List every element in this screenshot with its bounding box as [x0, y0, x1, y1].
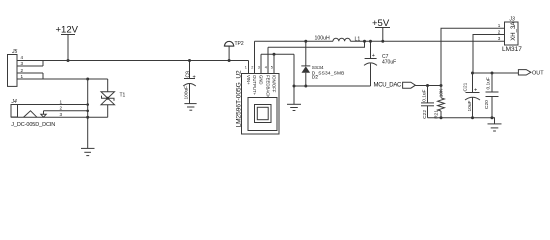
wire vertical x294 GND down: [293, 54, 295, 104]
svg-text:J5: J5: [11, 49, 18, 55]
svg-text:VIN+: VIN+: [246, 75, 251, 85]
svg-text:C21: C21: [462, 82, 468, 91]
svg-text:OUTPUT+: OUTPUT+: [252, 75, 257, 96]
J4 tip contact tent: [24, 111, 38, 118]
node junction at (294,86): [293, 85, 296, 88]
svg-text:2: 2: [498, 29, 501, 34]
inductor L1: [333, 38, 350, 41]
svg-text:100uF: 100uF: [183, 86, 189, 100]
node +12V junction: [67, 59, 70, 62]
svg-text:1: 1: [60, 99, 63, 104]
node junction C20 bottom: [491, 116, 494, 119]
wire vertical x87.7 down to ground: [87, 79, 89, 148]
+5V power symbol: [372, 18, 390, 41]
svg-text:100uH: 100uH: [315, 35, 331, 41]
J5 pin 3 stub: [17, 65, 43, 67]
svg-text:+12V: +12V: [56, 25, 79, 36]
svg-text:LM2596T-005G_U2: LM2596T-005G_U2: [236, 70, 243, 128]
svg-text:C20: C20: [484, 100, 490, 109]
svg-text:XH_3A: XH_3A: [511, 22, 517, 41]
node junction C20 top: [491, 72, 494, 75]
svg-text:/ON/OFF: /ON/OFF: [271, 75, 276, 93]
svg-text:2: 2: [21, 68, 24, 73]
diode D2 SS34: [301, 41, 310, 86]
capacitor C22 0.1uF: [421, 86, 434, 118]
svg-text:OUT: OUT: [532, 71, 544, 77]
wire GND net y54.2 (U2 pins 3,5): [261, 53, 294, 55]
svg-text:3: 3: [258, 66, 260, 70]
J4 pin 2 wire: [44, 110, 88, 112]
node junction FB at (364.5,41.2): [363, 40, 366, 43]
svg-text:+: +: [474, 88, 477, 94]
wire +5V rail after L1 to J3 pin3: [350, 40, 504, 42]
J5 pin 1 stub: [17, 78, 43, 80]
svg-text:3: 3: [60, 112, 63, 117]
svg-text:2: 2: [251, 66, 253, 70]
svg-text:4: 4: [21, 55, 24, 60]
svg-text:3: 3: [498, 36, 501, 41]
J4 pin 3 wire (bottom): [11, 116, 108, 118]
wire J5 pins1-2 to T1 (y79): [43, 78, 108, 80]
svg-text:0.1uF: 0.1uF: [485, 77, 491, 89]
svg-text:T1: T1: [120, 92, 126, 98]
svg-text:GND: GND: [258, 75, 263, 85]
svg-text:TP2: TP2: [235, 41, 244, 47]
node junction C21 top: [471, 72, 474, 75]
ground symbol under diode area: [287, 104, 301, 110]
svg-text:FEEDBACK: FEEDBACK: [265, 75, 270, 98]
U2 pin 1 stub (VIN+): [248, 61, 250, 74]
wire +12V rail y60.5: [43, 60, 249, 62]
svg-text:3: 3: [21, 61, 24, 66]
U2 pin 2 stub (OUTPUT+): [254, 41, 256, 73]
capacitor C20 0.1uF: [486, 73, 499, 118]
U2 inner rect A: [248, 98, 277, 131]
svg-text:+: +: [193, 74, 196, 80]
node junction at (87.7,117.3): [86, 116, 89, 119]
wire GND y86 from x294 to C7 bottom: [294, 85, 371, 87]
svg-text:10uF: 10uF: [467, 100, 473, 111]
U2 pin 4 stub (FEEDBACK): [267, 47, 269, 73]
wire bottom GND rail y117.8: [428, 118, 495, 124]
wire joining J5 pins 4-3: [42, 61, 44, 67]
J4 pin 1 wire (top): [11, 104, 88, 106]
J3 pin 2 wire (OUT): [473, 35, 505, 74]
svg-text:2: 2: [60, 106, 63, 111]
svg-text:MCU_DAC: MCU_DAC: [374, 83, 403, 89]
node D2 bottom junction: [304, 85, 307, 88]
connector J5 body: [8, 55, 18, 87]
J3 pin 1 wire (ADJ): [441, 28, 505, 85]
module U2 body: [242, 74, 280, 135]
svg-text:4: 4: [265, 66, 267, 70]
+12V power symbol: [56, 25, 79, 61]
connector J4 barrel rect: [11, 105, 18, 118]
node junction at (87.7,104.5): [86, 103, 89, 106]
node +5V junction: [381, 40, 384, 43]
svg-text:J_DC-005D_DCIN: J_DC-005D_DCIN: [11, 122, 55, 128]
svg-text:J3: J3: [509, 17, 516, 23]
node junction divider tee: [440, 84, 443, 87]
svg-text:470uF: 470uF: [382, 60, 396, 66]
svg-text:1: 1: [498, 23, 501, 28]
svg-text:1: 1: [245, 66, 247, 70]
node C9 junction on rail: [188, 59, 191, 62]
capacitor C7: [364, 41, 377, 86]
capacitor C9: [183, 61, 196, 104]
node junction C21 bottom: [471, 116, 474, 119]
J5 pin 2 stub: [17, 72, 43, 74]
node junction pin5 on y54.2: [273, 53, 276, 56]
wire FEEDBACK y47.2 (U2 pin4 to output node): [268, 41, 365, 47]
capacitor C21 10uF: [465, 73, 480, 118]
svg-text:5: 5: [271, 66, 273, 70]
U2 inner rect B: [255, 105, 272, 123]
ground symbol left: [81, 148, 95, 155]
ground symbol right: [488, 124, 502, 131]
resistor R21 10K: [438, 86, 445, 118]
connector J3 (LM317 header) body: [505, 22, 519, 45]
svg-text:LM317: LM317: [502, 46, 522, 53]
node TP2 junction: [228, 59, 231, 62]
J5 pin 4 stub: [17, 60, 43, 62]
svg-text:10K: 10K: [438, 88, 444, 97]
svg-text:D2: D2: [312, 75, 318, 81]
wire OUT rail y73: [473, 72, 519, 74]
node junction C22 top: [426, 84, 429, 87]
svg-text:SS34: SS34: [312, 65, 324, 71]
svg-text:C9: C9: [185, 71, 191, 78]
node D2 top junction: [304, 40, 307, 43]
port MCU_DAC flag: [403, 82, 416, 88]
node C7 top junction: [369, 40, 372, 43]
svg-text:C22: C22: [422, 110, 428, 119]
svg-text:+5V: +5V: [372, 18, 390, 29]
wire OUTPUT+ rail y41.2 to L1: [255, 40, 334, 42]
node junction at (87.7,110.8): [86, 110, 89, 113]
port OUT flag: [518, 70, 531, 75]
U2 pin 3 stub (GND): [260, 54, 262, 73]
svg-text:1: 1: [21, 74, 24, 79]
node junction R21 bottom: [440, 116, 443, 119]
TVS diode T1: [101, 79, 115, 117]
ground symbol under C9: [184, 104, 196, 111]
test point TP2: [224, 41, 235, 60]
wire MCU_DAC to divider node: [415, 85, 441, 87]
J4 switch contact arrow: [41, 111, 46, 117]
svg-text:+: +: [372, 53, 375, 59]
wire joining J5 pins 2-1: [42, 73, 44, 79]
node junction at (87.7,79): [86, 78, 89, 81]
svg-text:0.1uF: 0.1uF: [421, 89, 427, 101]
U2 pin 5 stub (ON/OFF): [273, 54, 275, 73]
